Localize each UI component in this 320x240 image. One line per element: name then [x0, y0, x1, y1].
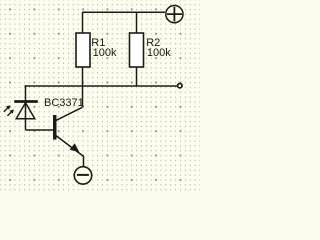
svg-text:BC3371: BC3371: [44, 97, 84, 109]
base bar: [53, 115, 57, 140]
light arrow 2: [7, 109, 13, 116]
resistor R1: [76, 33, 90, 67]
collector diagonal: [56, 107, 82, 120]
wire R1 bottom lead to collector node: [82, 67, 84, 107]
wire mid horizontal rail: [25, 85, 178, 87]
wire top rail from R1 to +V: [83, 11, 166, 13]
power +V supply terminal: [166, 6, 183, 23]
emitter arrowhead: [70, 143, 80, 152]
wire photodiode anode to base: [26, 129, 54, 131]
resistor R2: [130, 33, 144, 67]
power -V supply terminal: [74, 167, 91, 184]
svg-text:100k: 100k: [93, 47, 117, 59]
svg-text:100k: 100k: [147, 47, 171, 59]
wire photodiode cathode lead: [25, 85, 27, 130]
node open terminal: [178, 84, 182, 88]
wire R2 bottom lead: [136, 67, 138, 86]
emitter diagonal: [56, 136, 84, 157]
photodiode D1: [14, 102, 38, 119]
light arrow 1: [4, 105, 11, 112]
wire R1 top lead: [82, 12, 84, 33]
wire R2 top lead: [136, 12, 138, 33]
transistor Q1 BC337: [53, 107, 84, 156]
wire emitter to -V: [83, 156, 85, 166]
